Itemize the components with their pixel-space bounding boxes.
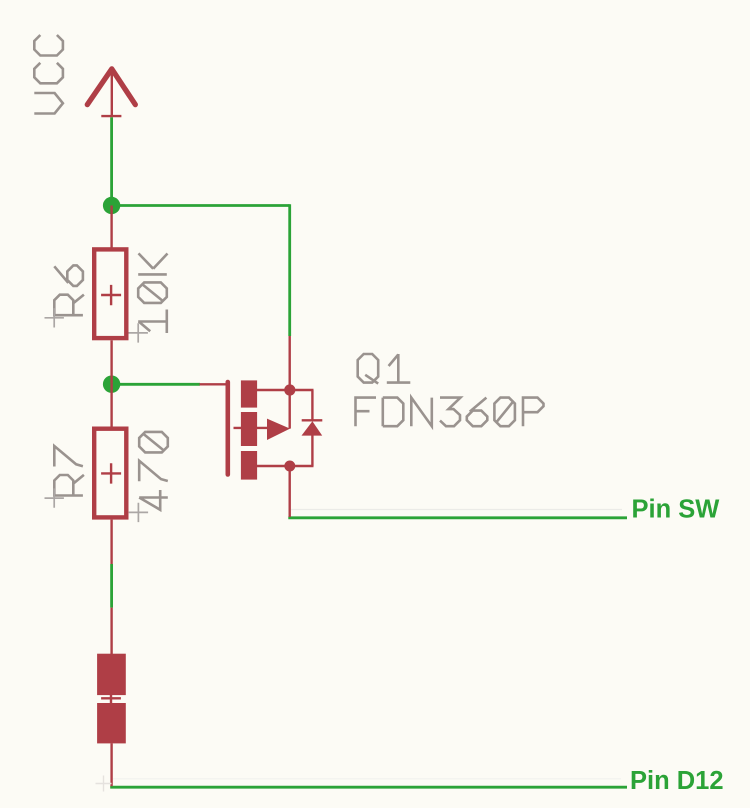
svg-text:Pin D12: Pin D12 bbox=[630, 767, 724, 795]
svg-text:Pin SW: Pin SW bbox=[632, 496, 721, 524]
